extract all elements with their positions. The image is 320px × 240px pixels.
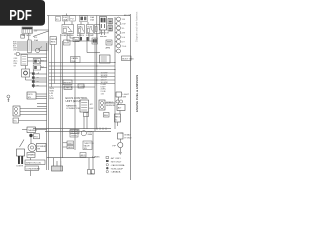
resistor assembly box — [50, 37, 58, 88]
wire diode pack outputs — [30, 61, 47, 86]
legend row 2 — [106, 160, 122, 163]
injector assembly box — [100, 17, 110, 35]
svg-text:ALT: ALT — [118, 107, 123, 110]
condenser label box — [25, 166, 40, 171]
relay K1 label — [62, 34, 75, 37]
fuel pump FP — [113, 142, 123, 154]
ignition switch block — [21, 40, 31, 66]
legend row 1 — [106, 157, 121, 160]
svg-text:A.REG: A.REG — [77, 34, 84, 37]
svg-text:: CALIFORNIA: : CALIFORNIA — [110, 164, 125, 167]
connector box E1 top row — [56, 17, 61, 22]
page number top right — [124, 15, 131, 17]
injector drop wires — [100, 30, 107, 37]
power transistor box — [37, 144, 47, 152]
svg-text:REG: REG — [115, 117, 120, 119]
svg-text:L/W: L/W — [13, 50, 17, 52]
resistor block R1 — [63, 80, 72, 85]
svg-text:VSV: VSV — [74, 40, 79, 42]
battery feed component B+ — [118, 133, 124, 139]
bus wire labels column — [50, 88, 55, 100]
harness connector circles column — [115, 17, 121, 53]
air flow meter box — [106, 40, 113, 50]
ignition switch SW1 — [35, 47, 46, 53]
water temp sensor block — [100, 55, 111, 63]
diode pack D1-D5 — [32, 70, 39, 88]
wire vertical right column feed — [114, 17, 116, 129]
legend row 5 — [106, 170, 121, 173]
svg-text:: CANADA: : CANADA — [110, 171, 121, 174]
connector box E3 top row — [70, 16, 76, 22]
diode pack labels — [41, 61, 44, 69]
svg-text:GAS: GAS — [88, 133, 93, 136]
pickup coil — [29, 134, 39, 139]
solenoid valve box — [64, 40, 71, 45]
wire relay drops — [49, 14, 100, 88]
left margin connector symbol — [7, 95, 10, 102]
svg-text:B BAT: B BAT — [125, 134, 132, 137]
wire top supply bus — [47, 15, 130, 17]
ECU pin box — [84, 113, 89, 117]
bottom left A/C label — [91, 156, 101, 176]
ECU connector block U1 — [80, 100, 89, 112]
wire coil drop — [20, 137, 32, 147]
idle switch box — [13, 118, 47, 123]
wire center vertical bus — [61, 34, 63, 171]
svg-text:EF-28: EF-28 — [124, 15, 131, 17]
throttle body box — [83, 141, 95, 150]
wire vertical right-center — [95, 16, 97, 132]
svg-text:EGR T: EGR T — [68, 143, 75, 145]
svg-text:POWER: POWER — [37, 146, 46, 148]
wire speed sensor link — [105, 102, 115, 104]
bottom right twin boxes — [88, 170, 95, 175]
throttle sensor connector — [13, 106, 20, 116]
svg-text:30A: 30A — [34, 39, 38, 42]
junction labels right of ECU — [90, 104, 95, 110]
svg-text:SPARK: SPARK — [28, 154, 36, 157]
svg-text:12V: 12V — [34, 31, 38, 33]
distributor plug — [17, 149, 25, 164]
svg-text:CONNECTOR: CONNECTOR — [66, 108, 80, 110]
dark mark M2 — [86, 37, 88, 41]
svg-text:7 LG: 7 LG — [122, 46, 127, 48]
right margin rotated title bold — [135, 75, 139, 112]
thermo relay box — [27, 127, 37, 133]
ignition switch wire labels — [13, 42, 18, 68]
connector pin labels — [122, 19, 127, 48]
vehicle speed sensor connector — [99, 100, 105, 110]
svg-text:CHECK: CHECK — [65, 88, 73, 90]
main relay K5 with diode — [33, 59, 40, 71]
right margin rotated title light — [135, 11, 139, 42]
svg-text:F/P: F/P — [113, 146, 117, 148]
svg-text:Diagram and wire harness: Diagram and wire harness — [135, 11, 139, 42]
svg-text:COND: COND — [79, 86, 86, 88]
wire thermo stub — [22, 129, 47, 131]
ECCS relay K4 — [95, 25, 101, 34]
svg-text:J/C: J/C — [90, 104, 94, 106]
svg-text:CONDENSER: CONDENSER — [26, 168, 40, 170]
idle up solenoid box — [80, 153, 86, 158]
wire relay box outputs mid-left — [36, 94, 47, 98]
wire right cluster drops — [118, 97, 121, 142]
svg-text:PDF: PDF — [9, 8, 32, 24]
svg-text:BODY GND: BODY GND — [122, 58, 134, 60]
ECU pin label column — [101, 73, 108, 96]
bottom bus tick box — [70, 130, 79, 134]
ignition coil label box — [25, 160, 45, 165]
ECU sub label — [66, 105, 80, 111]
svg-text:FICD: FICD — [28, 94, 34, 96]
PDF badge — [0, 0, 45, 26]
svg-text:4 R: 4 R — [122, 33, 126, 35]
condenser C1 — [78, 84, 85, 88]
svg-text:TR: TR — [37, 149, 40, 151]
svg-text:TER: TER — [71, 61, 76, 63]
thermo control box — [27, 92, 36, 99]
check connector box — [64, 86, 73, 90]
svg-text:SW: SW — [84, 148, 87, 150]
wire fuse block outputs — [17, 42, 49, 80]
B+ labels — [125, 134, 132, 140]
twin square box — [92, 38, 98, 44]
wire bottom long bus — [33, 129, 111, 132]
sub fuse box — [22, 69, 30, 77]
inhibitor box — [104, 113, 110, 118]
connector bars block A — [108, 19, 113, 25]
fuse label row — [90, 16, 94, 22]
svg-text:UNIT (ECU): UNIT (ECU) — [66, 99, 81, 103]
fuse box E4 top row — [80, 16, 88, 22]
svg-text:INH: INH — [104, 115, 108, 117]
wire ECU drop to bus — [84, 112, 87, 129]
fusible link FL — [21, 35, 39, 43]
fuel pump relay K3 — [87, 25, 94, 34]
wire bottom drops — [54, 131, 94, 169]
wire sensor connector outputs — [20, 109, 47, 115]
alternator box — [117, 105, 125, 111]
svg-text:F.PUMP: F.PUMP — [86, 35, 95, 37]
connector box E2 top row — [63, 16, 69, 22]
wire lower horizontal run — [47, 157, 95, 159]
junction circles pair — [116, 100, 123, 103]
wire vertical from relay row — [74, 41, 76, 150]
bus tick marks — [97, 128, 106, 130]
bottom connector strip — [52, 166, 63, 171]
ECU label text — [66, 96, 89, 103]
wire coil bottom drop — [30, 158, 32, 176]
spark plug label box — [27, 153, 35, 158]
svg-text:FU: FU — [71, 19, 74, 21]
svg-text:6 Y: 6 Y — [122, 42, 126, 44]
svg-text:RESIST: RESIST — [64, 82, 73, 84]
distributor label — [17, 166, 24, 168]
svg-text:DISTR: DISTR — [17, 166, 24, 168]
inline connector circle — [14, 52, 47, 56]
svg-text:1 B: 1 B — [122, 19, 126, 21]
svg-text:15A: 15A — [90, 19, 94, 22]
relay K2 label — [77, 34, 84, 37]
light switch box — [116, 92, 130, 99]
svg-text:DROP: DROP — [51, 39, 58, 41]
junction dots — [96, 62, 115, 81]
wire stub pair mid-left — [37, 103, 47, 106]
svg-text:P/U: P/U — [34, 136, 38, 138]
battery — [22, 27, 38, 37]
svg-text:EGR RELAY: EGR RELAY — [62, 34, 75, 37]
EGR temp sensor boxes — [63, 141, 75, 149]
svg-text:RES: RES — [51, 42, 56, 44]
svg-text:SENSOR: SENSOR — [106, 105, 116, 107]
connector bars block B — [108, 26, 113, 32]
page fold border line — [130, 14, 132, 180]
svg-text:ASCD: ASCD — [81, 154, 87, 157]
knock sensor box — [70, 130, 78, 137]
oxygen sensor O2 — [81, 131, 92, 136]
svg-text:CANIS: CANIS — [71, 57, 78, 60]
wire horizontal bus to ECU (7 lines) — [49, 63, 115, 84]
svg-text:THERMO: THERMO — [28, 130, 38, 132]
vacuum switch box — [73, 38, 79, 42]
svg-text:10A: 10A — [90, 16, 94, 19]
svg-text:AFM: AFM — [106, 47, 111, 50]
wire left main vertical bus — [47, 16, 49, 171]
relay K3 label — [86, 35, 95, 37]
svg-text:: NON-CALIF: : NON-CALIF — [110, 167, 124, 170]
wire battery to bus — [29, 30, 49, 40]
EGR control solenoid relay K1 — [62, 25, 74, 34]
svg-text:IGNITION COIL: IGNITION COIL — [26, 162, 42, 164]
dark mark M1 — [80, 37, 82, 40]
svg-text:: A/T ONLY: : A/T ONLY — [110, 157, 121, 160]
carbon canister box — [71, 57, 81, 63]
svg-text:AAC: AAC — [78, 26, 83, 29]
svg-text:EGR: EGR — [64, 43, 69, 45]
svg-text:S/V: S/V — [28, 97, 32, 99]
svg-text:E GND: E GND — [125, 138, 132, 140]
svg-text:ENGINE FUEL & EMISSION: ENGINE FUEL & EMISSION — [135, 75, 139, 112]
regulator box — [115, 114, 121, 122]
svg-text:SENS: SENS — [68, 147, 74, 149]
legend row 3 — [106, 164, 125, 167]
legend row 4 — [106, 167, 124, 170]
ignition coil T1 — [28, 144, 37, 152]
svg-text:5 G: 5 G — [122, 37, 126, 39]
svg-text:: M/T ONLY: : M/T ONLY — [110, 161, 122, 163]
air regulator relay K2 — [78, 25, 85, 34]
speed sensor labels — [106, 102, 116, 107]
boxed pin label — [122, 56, 135, 61]
svg-text:30A: 30A — [63, 18, 67, 21]
